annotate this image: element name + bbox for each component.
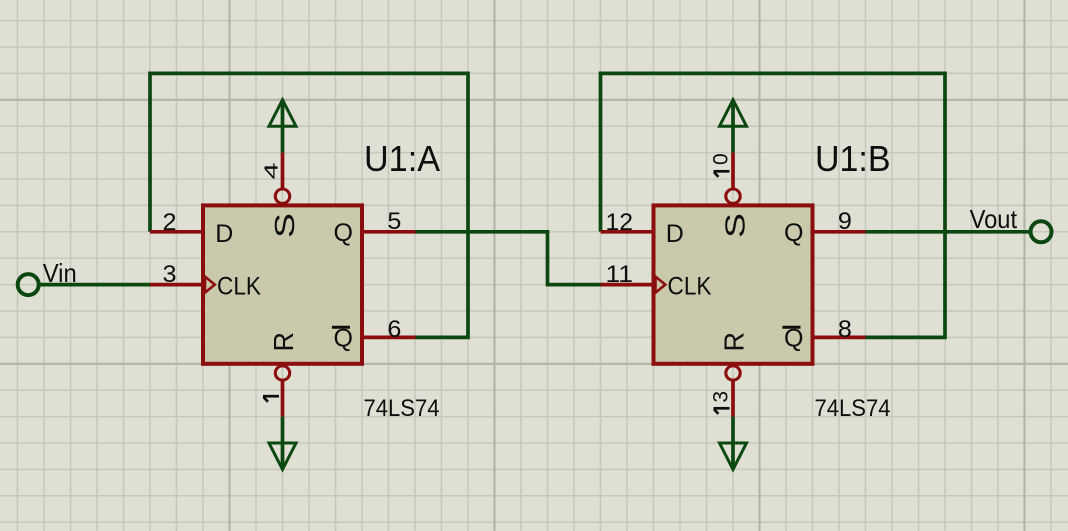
svg-text:S: S (269, 213, 300, 238)
svg-text:S: S (720, 213, 751, 238)
svg-text:5: 5 (387, 208, 401, 235)
svg-text:6: 6 (387, 316, 401, 343)
svg-text:74LS74: 74LS74 (364, 395, 440, 422)
svg-text:U1:A: U1:A (364, 138, 440, 179)
svg-text:8: 8 (838, 316, 852, 343)
svg-text:4: 4 (262, 163, 282, 180)
svg-text:74LS74: 74LS74 (815, 395, 891, 422)
svg-text:Q: Q (334, 219, 353, 247)
svg-text:3: 3 (163, 261, 177, 288)
svg-text:Vout: Vout (970, 204, 1018, 234)
svg-text:U1:B: U1:B (815, 138, 891, 179)
svg-text:D: D (215, 220, 233, 248)
svg-text:Vin: Vin (43, 258, 77, 288)
svg-text:2: 2 (163, 209, 177, 236)
svg-text:12: 12 (606, 209, 634, 236)
svg-text:9: 9 (838, 208, 852, 235)
svg-text:R: R (718, 332, 749, 352)
svg-text:Q: Q (784, 219, 803, 247)
svg-text:3: 3 (710, 391, 733, 403)
svg-text:11: 11 (606, 261, 634, 288)
svg-text:D: D (666, 220, 684, 248)
svg-text:CLK: CLK (217, 273, 261, 301)
svg-text:R: R (268, 332, 299, 352)
svg-text:CLK: CLK (668, 273, 712, 301)
svg-text:0: 0 (710, 153, 733, 165)
